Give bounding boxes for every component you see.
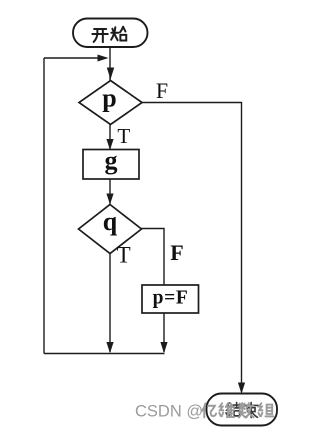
- wire g to decision q: [109, 179, 111, 204]
- arrowhead loopback junction: [98, 55, 109, 62]
- arrowhead into decision q: [106, 194, 113, 205]
- text 结 in end terminator: [226, 403, 240, 416]
- watermark 亿: [202, 403, 216, 417]
- wire q T branch down: [109, 254, 111, 353]
- svg-text:p=F: p=F: [153, 288, 189, 309]
- wire bottom collector: [44, 353, 165, 355]
- watermark 维: [219, 403, 234, 417]
- svg-text:q: q: [103, 207, 118, 236]
- wire p bottom to process g: [109, 125, 111, 150]
- svg-text:F: F: [170, 240, 183, 265]
- wire p=F box down to collector: [163, 313, 165, 352]
- svg-text:p: p: [102, 84, 116, 113]
- wire loopback horizontal top: [44, 57, 104, 59]
- svg-text:g: g: [105, 146, 118, 175]
- arrowhead into diamond p: [107, 68, 114, 80]
- text 束 in end terminator: [244, 403, 258, 418]
- arrowhead p=F into collector: [160, 342, 167, 353]
- process g rectangle: [83, 150, 139, 180]
- wire q F branch to p=F box: [142, 229, 165, 286]
- terminator 结束 (end): [207, 394, 278, 426]
- decision q diamond: [79, 205, 142, 254]
- wire start to diamond p: [109, 47, 111, 81]
- decision p diamond: [79, 81, 142, 125]
- svg-text:T: T: [117, 124, 130, 148]
- terminator 开始 (start): [73, 19, 148, 48]
- svg-text:CSDN @: CSDN @: [135, 403, 203, 421]
- svg-text:F: F: [156, 78, 168, 103]
- process p=F rectangle: [142, 285, 199, 313]
- svg-text:T: T: [117, 243, 131, 268]
- watermark 数: [239, 403, 254, 417]
- text 始 in start terminator: [111, 27, 126, 41]
- arrowhead T branch into collector: [106, 342, 113, 353]
- arrowhead into process g: [106, 139, 113, 150]
- wire loopback left vertical: [43, 58, 45, 354]
- text 开 in start terminator: [92, 29, 107, 42]
- watermark 组: [259, 403, 274, 416]
- wire F from p right: [142, 103, 242, 393]
- arrowhead into terminator end: [238, 383, 245, 394]
